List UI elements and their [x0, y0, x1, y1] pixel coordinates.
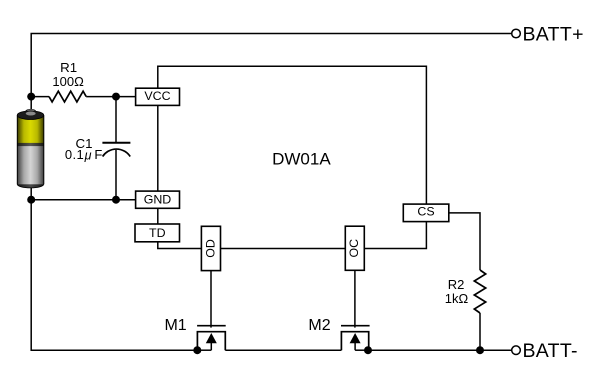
- wire battery- to GND: [31, 199, 135, 201]
- resistor R2: [474, 270, 485, 313]
- junction node C1 bottom: [112, 196, 120, 204]
- wire C1 bottom lead: [115, 150, 117, 200]
- svg-text:100Ω: 100Ω: [52, 74, 84, 89]
- wire OC to CS: [364, 222, 426, 249]
- wire OC to M2 gate: [354, 270, 356, 327]
- svg-text:BATT-: BATT-: [523, 340, 578, 362]
- svg-text:BATT+: BATT+: [523, 23, 584, 45]
- svg-text:1kΩ: 1kΩ: [445, 291, 469, 306]
- transistor M1: [197, 326, 226, 351]
- svg-text:VCC: VCC: [144, 89, 170, 103]
- junction node battery bottom: [27, 196, 35, 204]
- svg-text:OC: OC: [347, 239, 361, 258]
- capacitor C1 curved plate: [103, 149, 131, 156]
- wire bottom rail to BATT-: [368, 349, 512, 351]
- wire left rail bottom: [31, 186, 197, 350]
- wire R2 to bottom rail: [479, 313, 481, 350]
- wire M1 drain to M2 source: [225, 349, 341, 351]
- wire C1 top lead: [115, 97, 117, 143]
- terminal BATT-: [512, 346, 521, 355]
- junction node C1 top: [112, 93, 120, 101]
- wire battery+ to R1: [31, 96, 49, 98]
- IC DW01A outline top edge: [158, 66, 427, 204]
- capacitor C1 top plate: [102, 142, 130, 144]
- svg-text:TD: TD: [149, 226, 166, 240]
- resistor R1: [49, 91, 86, 102]
- pin box VCC: [136, 88, 180, 105]
- svg-text:0.1: 0.1: [65, 147, 84, 162]
- terminal BATT+: [512, 29, 521, 38]
- wire TD to OD: [158, 242, 202, 249]
- pin box OD: [201, 226, 220, 270]
- svg-text:M1: M1: [164, 317, 186, 334]
- svg-text:F: F: [94, 147, 102, 162]
- svg-text:μ: μ: [84, 149, 92, 163]
- svg-text:CS: CS: [417, 205, 434, 219]
- svg-text:DW01A: DW01A: [272, 150, 331, 169]
- wire top rail BATT+: [31, 34, 512, 113]
- wire OD to M1 gate: [210, 271, 212, 328]
- pin box TD: [135, 224, 180, 242]
- wire GND to TD: [157, 208, 159, 224]
- wire VCC to GND: [157, 105, 159, 191]
- svg-text:OD: OD: [203, 239, 217, 258]
- transistor M2: [341, 326, 370, 351]
- svg-text:M2: M2: [308, 317, 330, 334]
- junction node M2 source: [364, 346, 372, 354]
- junction node R2 bottom: [476, 346, 484, 354]
- junction node battery top: [27, 93, 35, 101]
- wire OD to OC: [221, 248, 346, 250]
- wire R1 to VCC: [86, 96, 135, 98]
- pin box GND: [136, 191, 180, 208]
- pin box CS: [403, 204, 449, 222]
- junction node M1 source: [193, 346, 201, 354]
- svg-text:R1: R1: [60, 60, 77, 75]
- battery B1: [17, 109, 44, 188]
- svg-text:GND: GND: [144, 193, 172, 207]
- wire CS to R2: [449, 213, 480, 270]
- pin box OC: [345, 226, 364, 270]
